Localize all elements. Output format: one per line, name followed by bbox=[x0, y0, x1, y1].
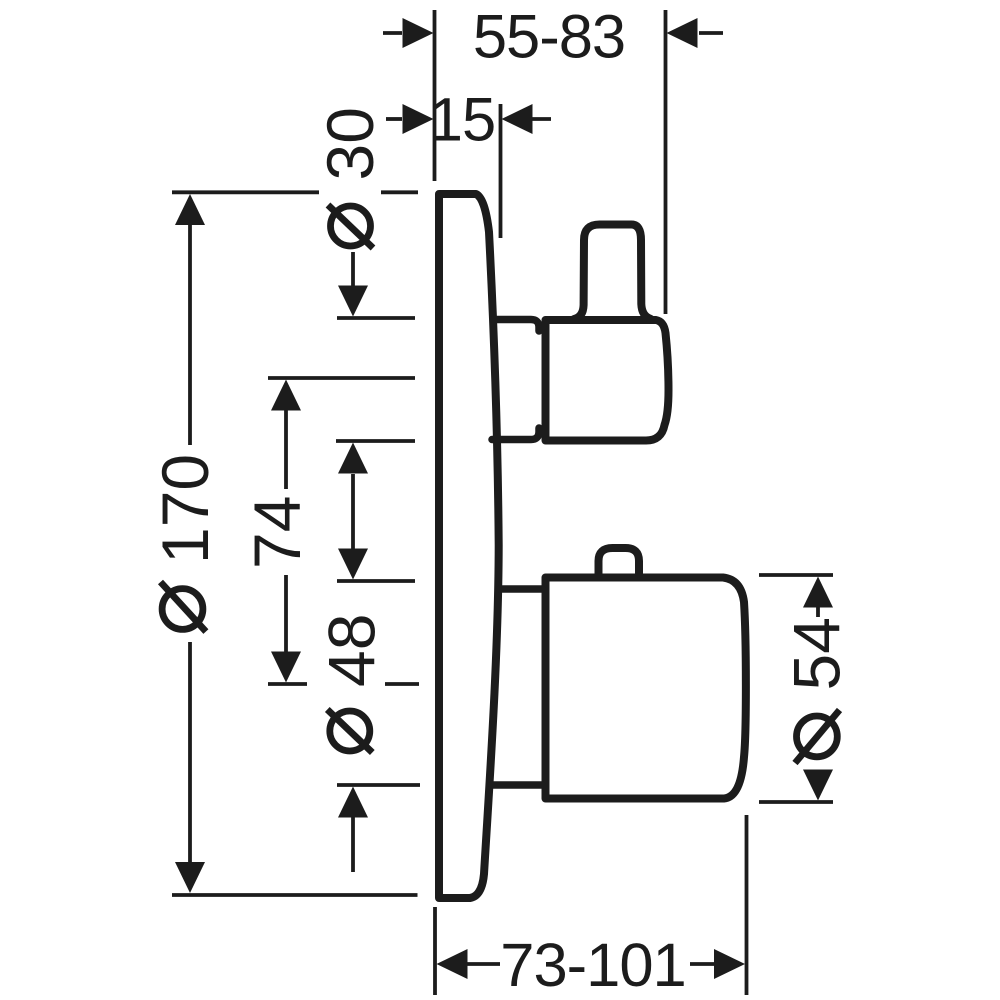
extension line plate bottom bbox=[172, 893, 418, 897]
dimension line d54 upper stub bbox=[816, 608, 820, 618]
svg-text:48: 48 bbox=[315, 614, 389, 687]
dimension line 74 lower stub bbox=[284, 575, 288, 652]
lever handle grip bbox=[574, 225, 651, 320]
tail of d48 lower outside arrow bbox=[351, 818, 355, 873]
svg-text:54: 54 bbox=[780, 617, 854, 690]
svg-text:170: 170 bbox=[148, 454, 222, 564]
extension line knob sleeve top (d48) bbox=[337, 579, 415, 583]
extension line sleeve bottom (d30/d48) bbox=[336, 439, 415, 443]
arrow 74 bottom bbox=[271, 652, 301, 683]
svg-text:55-83: 55-83 bbox=[473, 3, 625, 72]
arrow d30 top (leader) bbox=[338, 286, 368, 317]
wall plate (escutcheon, side view) bbox=[439, 194, 499, 898]
extension line knob top (d54) bbox=[759, 573, 833, 577]
dimension tail 55-83 right bbox=[699, 31, 723, 35]
extension line 73-101 left bbox=[433, 907, 437, 995]
arrow d54 top bbox=[803, 577, 833, 608]
dimension tail 73-101 left bbox=[468, 962, 501, 966]
lower valve sleeve bottom line bbox=[492, 781, 542, 789]
connector between d30 and d48 outside arrows bbox=[351, 474, 355, 549]
svg-text:74: 74 bbox=[240, 496, 314, 569]
dimension tail 15 right bbox=[532, 117, 551, 121]
extension line lever tip (right of 55-83) bbox=[664, 10, 668, 314]
dimension tail 55-83 left bbox=[383, 31, 402, 35]
thermostat knob nub bbox=[599, 548, 640, 574]
extension line plate front (right of 15) bbox=[499, 104, 503, 238]
svg-text:73-101: 73-101 bbox=[500, 931, 686, 1000]
label diameter 170 bbox=[148, 454, 222, 632]
extension line 73-101 right bbox=[745, 815, 749, 995]
lower valve sleeve top line bbox=[500, 585, 542, 593]
arrow d48 bottom (outside) bbox=[338, 787, 368, 818]
arrow 15 left bbox=[403, 104, 434, 134]
arrow d30 bottom (outside) bbox=[338, 443, 368, 474]
arrow d48 top (outside) bbox=[338, 549, 368, 580]
arrow d170 bottom bbox=[175, 862, 205, 893]
thermostat knob body bbox=[546, 578, 746, 799]
extension line 74 bottom, right segment bbox=[385, 682, 419, 686]
extension line 74 bottom, left segment bbox=[268, 682, 307, 686]
dimension tail 73-101 right bbox=[690, 962, 714, 966]
dimension line d170 lower stub bbox=[188, 642, 192, 862]
dimension tail 15 left bbox=[386, 117, 402, 121]
extension line sleeve top (d30) bbox=[337, 316, 415, 320]
label diameter 54 bbox=[780, 617, 854, 763]
dimension line 74 upper stub bbox=[284, 411, 288, 490]
lever handle body bbox=[546, 320, 669, 441]
extension line knob bottom (d54) bbox=[759, 800, 833, 804]
arrow 55-83 left bbox=[403, 18, 434, 48]
arrow d54 bottom bbox=[803, 770, 833, 801]
extension line 74 top bbox=[268, 376, 415, 380]
arrow 55-83 right bbox=[667, 18, 698, 48]
arrow 15 right bbox=[502, 104, 533, 134]
svg-text:30: 30 bbox=[313, 107, 387, 180]
upper valve sleeve top line with hook bbox=[494, 320, 539, 332]
label diameter 30 bbox=[313, 107, 387, 248]
leader line d30 bbox=[351, 252, 355, 286]
arrow 73-101 left bbox=[437, 949, 468, 979]
extension line wall face (left of 55-83 and 15) bbox=[433, 10, 437, 181]
arrow 73-101 right bbox=[714, 949, 745, 979]
arrow 74 top bbox=[271, 380, 301, 411]
extension line knob sleeve bottom (d48) bbox=[337, 783, 420, 787]
dimension line d170 upper stub bbox=[188, 225, 192, 445]
extension line plate top, left segment bbox=[172, 190, 319, 194]
arrow d170 top bbox=[175, 194, 205, 225]
label diameter 48 bbox=[315, 614, 389, 753]
extension line plate top, right segment bbox=[381, 190, 418, 194]
label 74 bbox=[240, 496, 314, 569]
upper valve sleeve bottom line with hook bbox=[492, 428, 539, 440]
svg-text:15: 15 bbox=[429, 86, 495, 155]
